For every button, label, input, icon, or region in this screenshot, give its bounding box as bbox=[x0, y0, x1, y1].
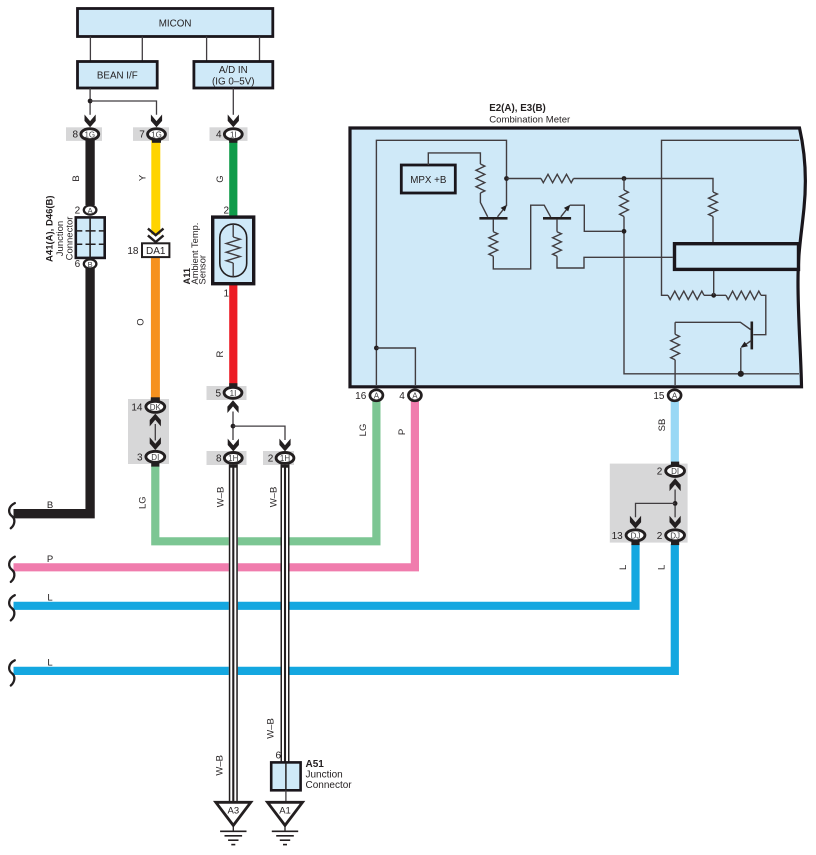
svg-text:2: 2 bbox=[657, 466, 663, 477]
resistor R6 bbox=[726, 291, 761, 299]
svg-text:B: B bbox=[71, 175, 82, 181]
pin B circle bbox=[84, 259, 97, 269]
svg-text:L: L bbox=[618, 565, 629, 570]
connector 13-DJ bbox=[612, 530, 645, 545]
wire label Y bbox=[138, 174, 149, 181]
wire J2 down bbox=[623, 179, 625, 191]
svg-text:A: A bbox=[412, 391, 418, 400]
svg-text:5: 5 bbox=[215, 388, 221, 399]
label A11 ambient temp sensor bbox=[182, 223, 208, 285]
svg-text:DA1: DA1 bbox=[146, 246, 166, 257]
connector 7-1G bbox=[139, 129, 165, 143]
svg-text:(IG 0–5V): (IG 0–5V) bbox=[212, 76, 254, 87]
transistor Q2 base bar bbox=[543, 217, 571, 220]
wire label B horizontal bbox=[47, 500, 53, 511]
connector 4-1I bbox=[216, 129, 242, 143]
wire R red bbox=[229, 284, 237, 387]
wire 5-1I to 1H branch bbox=[232, 412, 234, 441]
connector 2-DI bbox=[657, 462, 685, 478]
gray label plate 8-1H bbox=[207, 451, 247, 465]
svg-text:SB: SB bbox=[657, 419, 668, 432]
svg-text:18: 18 bbox=[127, 246, 139, 257]
connector 8-1G bbox=[73, 129, 99, 141]
svg-text:R: R bbox=[215, 350, 226, 357]
arrow into 13-DJ bbox=[630, 516, 641, 529]
arrow into 2-1H bbox=[279, 439, 290, 452]
combination meter E2(A) E3(B) body bbox=[350, 128, 805, 387]
connector 8-1H bbox=[216, 453, 242, 465]
wire MPX to resistor R1 bbox=[428, 153, 480, 165]
svg-text:1I: 1I bbox=[230, 130, 237, 139]
resistor R5 bbox=[668, 291, 704, 299]
svg-text:Sensor: Sensor bbox=[198, 255, 208, 284]
node J3 bbox=[622, 229, 627, 234]
svg-text:LG: LG bbox=[138, 496, 149, 509]
wire DI to DJ bbox=[674, 490, 676, 518]
gray label plate 2-1H bbox=[263, 451, 294, 465]
wire label L lower horizontal bbox=[47, 657, 52, 668]
svg-text:1G: 1G bbox=[84, 130, 95, 139]
svg-text:A: A bbox=[88, 206, 93, 215]
BEAN I/F box bbox=[78, 62, 158, 89]
wire W-B left bbox=[229, 464, 238, 802]
svg-text:6: 6 bbox=[75, 259, 81, 270]
svg-text:P: P bbox=[397, 429, 408, 435]
wire R6 to Q3 collector bbox=[753, 295, 766, 334]
wire A51 to ground A1 bbox=[285, 790, 287, 802]
svg-text:L: L bbox=[657, 565, 668, 570]
arrow into 8-1H bbox=[228, 439, 239, 452]
arrow into 7-1G bbox=[151, 115, 162, 128]
wire label L upper horizontal bbox=[47, 592, 52, 603]
svg-text:B: B bbox=[88, 260, 93, 269]
arrow up into 5-1I bbox=[227, 400, 238, 413]
node 1H branch bbox=[231, 424, 236, 429]
label W-B right lower bbox=[266, 718, 277, 739]
wire L lower from break to 2-DJ bbox=[14, 544, 675, 671]
wire Q2 base network bbox=[553, 220, 673, 268]
wire label O bbox=[136, 318, 147, 325]
wire R4 to bottom rail bbox=[624, 217, 799, 374]
svg-text:1H: 1H bbox=[280, 454, 290, 463]
wire branch to 13-DJ bbox=[636, 503, 676, 517]
label W-B left lower bbox=[215, 755, 226, 776]
svg-text:O: O bbox=[136, 318, 147, 325]
svg-text:1I: 1I bbox=[230, 389, 237, 398]
node J5 bbox=[738, 371, 744, 377]
wire SB from meter 15-A to 2-DI bbox=[671, 401, 679, 466]
connector 5-1I bbox=[215, 383, 241, 399]
svg-text:W–B: W–B bbox=[215, 487, 226, 508]
wire R2 to R3 bbox=[574, 179, 714, 193]
label E2(A) E3(B) combination meter bbox=[489, 103, 571, 125]
wire BEAN I/F output bbox=[89, 88, 91, 115]
svg-text:7: 7 bbox=[139, 130, 145, 141]
wire label L vertical left bbox=[618, 565, 629, 570]
svg-text:16: 16 bbox=[355, 391, 367, 402]
svg-text:Y: Y bbox=[138, 174, 149, 181]
svg-text:B: B bbox=[47, 500, 53, 511]
wire L upper from break to 13-DJ bbox=[14, 544, 636, 606]
terminal 15-A bbox=[653, 390, 681, 402]
transistor Q3 base bar bbox=[751, 322, 754, 350]
A/D IN box bbox=[194, 62, 273, 89]
label W-B left upper bbox=[215, 487, 226, 508]
svg-text:Connector: Connector bbox=[306, 780, 353, 791]
wire label SB vertical bbox=[657, 419, 668, 432]
wire R3 to IC box bbox=[712, 217, 714, 244]
node DJ branch bbox=[673, 501, 678, 506]
node J2 bbox=[622, 176, 627, 181]
svg-text:W–B: W–B bbox=[269, 487, 280, 508]
svg-text:2: 2 bbox=[75, 205, 81, 216]
wire label LG vertical bbox=[358, 424, 369, 437]
transistor Q3 emitter bbox=[740, 341, 751, 374]
wire P from meter 4-A to break bbox=[14, 401, 415, 568]
wire A/D IN output bbox=[232, 88, 234, 115]
connector 3-DI bbox=[137, 451, 165, 466]
wire branch to terminal 4 bbox=[376, 348, 415, 385]
wire R1 to Q1 collector bbox=[480, 193, 487, 217]
gray label plate 4-1I bbox=[210, 127, 248, 141]
svg-text:E2(A), E3(B): E2(A), E3(B) bbox=[489, 103, 546, 114]
transistor Q2 emitter bbox=[561, 205, 622, 232]
MPX +B box bbox=[401, 165, 455, 193]
pin A number 2 bbox=[75, 205, 81, 216]
label A41 junction connector bbox=[45, 195, 76, 262]
svg-text:13: 13 bbox=[612, 531, 624, 542]
connector 2-1H bbox=[268, 453, 294, 465]
ground A3 bbox=[216, 802, 251, 844]
svg-text:A: A bbox=[672, 391, 678, 400]
svg-text:DJ: DJ bbox=[631, 531, 641, 540]
A51 pin number 6 bbox=[275, 751, 281, 762]
wire label G bbox=[215, 175, 226, 182]
wire DK to DI bbox=[154, 424, 156, 441]
svg-text:8: 8 bbox=[216, 454, 222, 465]
svg-text:4: 4 bbox=[399, 391, 405, 402]
svg-text:A3: A3 bbox=[227, 806, 239, 817]
arrow into 4-1I bbox=[228, 115, 239, 128]
break symbol wire L upper bbox=[9, 595, 15, 620]
transistor Q1 emitter bbox=[498, 179, 508, 217]
arrow down into 3-DI bbox=[150, 437, 161, 450]
arrow up into 2-DI bbox=[670, 478, 681, 491]
break symbol wire B bbox=[9, 503, 15, 528]
svg-text:A1: A1 bbox=[279, 806, 291, 817]
svg-text:W–B: W–B bbox=[215, 755, 226, 776]
gray label plate 8-1G bbox=[66, 127, 102, 141]
wire label B bbox=[71, 175, 82, 181]
wire J4 to IC box bbox=[713, 269, 715, 295]
svg-text:2: 2 bbox=[223, 205, 229, 216]
junction connector A51 box bbox=[271, 762, 300, 790]
wire label LG below DI bbox=[138, 496, 149, 509]
arrow up into 14-DK bottom bbox=[150, 414, 161, 427]
DA1 number 18 bbox=[127, 246, 139, 257]
label A51 junction connector bbox=[306, 759, 353, 791]
wire label P horizontal bbox=[47, 554, 53, 565]
gray label plate DI-DJ bbox=[610, 464, 688, 543]
svg-text:4: 4 bbox=[216, 130, 222, 141]
IC block box bbox=[675, 244, 799, 270]
resistor R4 bbox=[620, 190, 629, 217]
pin A circle bbox=[84, 205, 97, 215]
sensor pin 2 number bbox=[223, 205, 229, 216]
node J4 bbox=[711, 293, 716, 298]
svg-text:2: 2 bbox=[268, 454, 274, 465]
wire J1 to R2 bbox=[507, 178, 542, 180]
wire Q3 base bbox=[675, 322, 750, 329]
gray label plate 7-1G bbox=[133, 127, 169, 141]
node J1 bbox=[504, 176, 509, 181]
wire sensor pin 2 stub bbox=[232, 218, 234, 226]
wire B black vertical upper bbox=[85, 140, 94, 205]
svg-text:1: 1 bbox=[223, 289, 229, 300]
svg-text:MICON: MICON bbox=[159, 18, 192, 29]
resistor R1 bbox=[476, 164, 485, 193]
wire label P vertical bbox=[397, 429, 408, 435]
svg-text:8: 8 bbox=[73, 130, 79, 141]
svg-text:A/D IN: A/D IN bbox=[219, 65, 248, 76]
svg-text:A: A bbox=[374, 391, 380, 400]
terminal 16-A bbox=[355, 390, 383, 402]
resistor R7 network bbox=[671, 322, 680, 385]
arrow into 8-1G bbox=[85, 115, 96, 128]
svg-text:L: L bbox=[47, 592, 52, 603]
resistor R2 bbox=[541, 174, 574, 182]
wire G green bbox=[229, 140, 237, 218]
svg-text:MPX +B: MPX +B bbox=[410, 175, 447, 186]
wire MICON to A/D IN bbox=[207, 37, 260, 62]
svg-text:W–B: W–B bbox=[266, 718, 277, 739]
svg-text:P: P bbox=[47, 554, 53, 565]
double chevron into DA1 bbox=[148, 229, 164, 242]
wire label L vertical right bbox=[657, 565, 668, 570]
svg-text:1G: 1G bbox=[151, 130, 162, 139]
wire R5 to R6 bbox=[704, 294, 726, 296]
ambient temp sensor A11 box bbox=[213, 217, 254, 284]
pin B number 6 bbox=[75, 259, 81, 270]
svg-text:1H: 1H bbox=[228, 454, 238, 463]
break symbol wire P bbox=[9, 557, 15, 582]
wire W-B right upper bbox=[281, 464, 290, 762]
svg-text:Combination Meter: Combination Meter bbox=[489, 114, 571, 125]
wire Q1 base network bbox=[489, 205, 551, 269]
DA1 box bbox=[142, 243, 169, 257]
junction connector A41(A) D46(B) box bbox=[76, 217, 105, 258]
svg-text:2: 2 bbox=[657, 531, 663, 542]
svg-text:BEAN I/F: BEAN I/F bbox=[97, 70, 138, 81]
svg-text:14: 14 bbox=[131, 402, 143, 413]
svg-text:A51: A51 bbox=[306, 759, 325, 770]
sensor pin 1 number bbox=[223, 289, 229, 300]
wire B black lower to break bbox=[14, 268, 91, 514]
gray label plate DK-DI bbox=[128, 399, 169, 464]
wire branch to 2-1H bbox=[233, 426, 285, 440]
break symbol wire L lower bbox=[9, 660, 15, 685]
terminal 4-A bbox=[399, 390, 421, 402]
svg-text:L: L bbox=[47, 657, 52, 668]
svg-text:Connector: Connector bbox=[64, 217, 75, 261]
wire MICON to BEAN I/F bbox=[90, 37, 142, 62]
connector 2-DJ bbox=[657, 530, 685, 545]
wire O orange bbox=[151, 257, 160, 400]
wire meter right loop bbox=[662, 140, 800, 295]
wire Y yellow bbox=[151, 140, 160, 235]
ground A1 bbox=[268, 802, 303, 844]
svg-text:DI: DI bbox=[671, 467, 679, 476]
transistor Q1 base bar bbox=[479, 217, 507, 220]
svg-text:15: 15 bbox=[653, 391, 665, 402]
gray label plate 5-1I bbox=[207, 386, 247, 400]
svg-text:LG: LG bbox=[358, 424, 369, 437]
node BEAN branch bbox=[88, 99, 93, 104]
connector 14-DK bbox=[131, 397, 164, 413]
resistor R3 bbox=[709, 192, 718, 217]
svg-text:DI: DI bbox=[151, 453, 159, 462]
svg-text:3: 3 bbox=[137, 452, 143, 463]
wire label R bbox=[215, 350, 226, 357]
wire branch to 7-1G bbox=[90, 101, 156, 115]
wire meter left loop bbox=[376, 140, 506, 385]
MICON box bbox=[78, 9, 273, 37]
label W-B right upper bbox=[269, 487, 280, 508]
wire LG from 3-DI to meter 16-A bbox=[155, 401, 376, 542]
svg-text:6: 6 bbox=[275, 751, 281, 762]
arrow into 2-DJ bbox=[670, 516, 681, 529]
svg-text:DJ: DJ bbox=[670, 531, 680, 540]
svg-text:G: G bbox=[215, 175, 226, 182]
node meter 16 branch bbox=[374, 346, 379, 351]
svg-text:DK: DK bbox=[150, 403, 162, 412]
